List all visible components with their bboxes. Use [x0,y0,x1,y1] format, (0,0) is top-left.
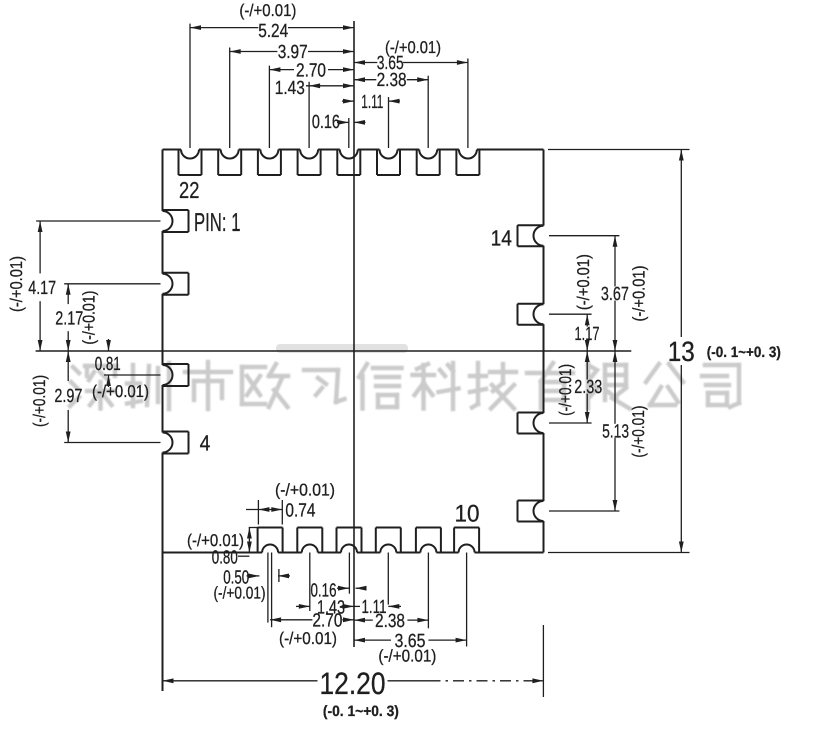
svg-text:2.97: 2.97 [54,386,82,407]
dimension 2.70 bottom (-/+0.01) [270,611,354,649]
top pad 4 (castellated) [298,150,321,176]
0.50 right tick [278,569,280,582]
svg-text:1.43: 1.43 [275,78,305,99]
svg-text:(-0. 1~+0. 3): (-0. 1~+0. 3) [707,344,781,361]
bottom pad5 extension [427,553,429,629]
left pad 1 (castellated) [163,210,189,232]
svg-text:(-/+0.01): (-/+0.01) [279,629,337,648]
dimension 2.97 (-/+0.01) [30,351,82,443]
bottom pad 3 (castellated) [337,528,362,553]
dimension 3.65 (-/+0.01) [354,38,468,74]
svg-text:2.33: 2.33 [574,377,602,398]
svg-text:(-/+0.01): (-/+0.01) [80,291,99,345]
dimension 3.97 [230,42,354,63]
top pad extension line x=467.9 [467,59,469,149]
13-dim bottom extension [548,552,690,554]
dimension 4.17 (-/+0.01) [7,221,56,351]
top pad extension line x=348.8 [348,118,350,148]
svg-text:(-/+0.01): (-/+0.01) [629,406,648,458]
dimension 0.80 (-/+0.01) [187,528,258,569]
top pad 1 (castellated) [179,150,202,176]
dimension 0.74 (-/+0.01) [246,480,335,521]
dimension 2.33 (-/+0.01) [556,351,602,423]
svg-text:(-/+0.01): (-/+0.01) [378,647,436,666]
bottom pad2 extension [309,553,311,612]
module body left edge (extends down as 12.20 extension) [162,150,164,692]
horizontal centerline [36,350,632,352]
0.74 right extension [281,500,283,525]
label PIN: 1 [194,207,241,237]
svg-text:0.74: 0.74 [285,500,315,521]
top pad extension line x=229.7 [229,48,231,149]
bottom pad4 extension [387,553,389,605]
0.74 left extension [257,500,259,525]
dimension 1.11 bottom [362,597,402,618]
svg-text:3.65: 3.65 [377,53,404,74]
right pad13 extension [549,313,592,315]
left pad2 extension [64,283,160,285]
top pad 6 (castellated) [377,150,400,176]
bottom pad1 slot lines [268,553,272,628]
module body bottom edge [163,552,544,554]
svg-text:1.11: 1.11 [361,92,383,113]
dimension 2.17 (-/+0.01) [55,284,98,351]
top pad 3 (castellated) [258,150,281,176]
dimension 3.65 bottom (-/+0.01) [354,631,467,666]
dimension 12.20 overall width (-0.1~+0.3) [163,666,544,720]
vertical centerline [353,21,355,647]
bottom pad 2 (castellated) [297,528,322,553]
left pad 4 (castellated) [163,432,189,454]
faint smudge artifact [276,344,408,353]
top pad extension line x=388.5 [388,97,390,148]
svg-text:5.13: 5.13 [602,421,629,442]
top pad extension line x=309.1 [308,82,310,148]
svg-text:22: 22 [179,177,199,203]
dimension 1.17 [575,314,600,351]
top pad extension line x=428.2 [427,76,429,148]
dimension 1.43 [275,78,354,99]
dimension 5.24 (-/+0.01) [190,1,354,42]
right pad 1 (castellated) [518,225,544,246]
top pad 7 (castellated) [417,150,440,176]
svg-text:(-/+0.01): (-/+0.01) [239,1,296,20]
dimension 0.16 [312,112,366,133]
svg-text:13: 13 [668,336,695,367]
svg-text:(-/+0.01): (-/+0.01) [630,266,649,322]
svg-text:(-/+0.01): (-/+0.01) [275,480,335,499]
dimension 2.38 [354,70,428,91]
svg-text:2.38: 2.38 [375,611,405,632]
svg-text:3.67: 3.67 [601,284,629,305]
dimension 3.67 (-/+0.01) [574,236,648,351]
left pad4 extension [64,442,160,444]
module body right edge [543,150,545,553]
svg-text:(-/+0.01): (-/+0.01) [574,254,593,310]
dimension 13 overall height (-0.1~+0.3) [668,150,781,553]
module body top edge [163,149,544,151]
right pad11 extension [549,510,619,512]
svg-text:10: 10 [455,501,480,528]
left pad1 extension [36,220,160,222]
top pad extension line x=190.0 [189,24,191,148]
svg-text:4: 4 [200,431,211,456]
label 4 (pin number) [200,431,211,456]
label 10 (pin number) [455,501,480,528]
13-dim top extension [548,149,690,151]
right pad12 extension [549,422,592,424]
label 22 (pin number) [179,177,199,203]
svg-text:0.81: 0.81 [95,354,121,375]
bottom pad6 extension [466,553,468,647]
svg-text:0.80: 0.80 [212,548,238,569]
svg-text:(-/+0.01): (-/+0.01) [214,584,266,603]
svg-text:12.20: 12.20 [320,666,386,701]
bottom pad3 extension [348,553,350,594]
top pad 8 (castellated) [456,150,479,176]
left pad 3 (castellated) [163,364,189,386]
bottom pad 5 (castellated) [416,528,441,553]
right pad 2 (castellated) [518,304,544,325]
dimension 2.70 [269,61,354,82]
dimension 1.11 [342,92,400,113]
dimension 0.81 (-/+0.01) [92,339,149,401]
left pad3 extension [104,374,161,376]
svg-text:(-0. 1~+0. 3): (-0. 1~+0. 3) [323,703,399,720]
svg-text:(-/+0.01): (-/+0.01) [556,364,575,416]
bottom pad 4 (castellated) [376,528,401,553]
bottom pad 1 (castellated) [258,528,283,553]
top pad extension line x=269.4 [268,66,270,148]
svg-text:5.24: 5.24 [258,21,288,42]
label 14 (pin number) [491,226,512,251]
left pad 2 (castellated) [163,273,189,295]
dimension 2.38 bottom [354,611,428,632]
12.20 right extension [542,625,544,697]
svg-text:(-/+0.01): (-/+0.01) [7,256,26,312]
right pad14 extension [549,235,619,237]
svg-text:(-/+0.01): (-/+0.01) [92,382,149,401]
svg-text:(-/+0.01): (-/+0.01) [30,375,49,427]
svg-text:4.17: 4.17 [28,278,56,299]
dimension 5.13 (-/+0.01) [602,351,648,511]
svg-text:PIN: 1: PIN: 1 [194,207,241,237]
top pad 5 (castellated) [337,150,360,176]
right pad 3 (castellated) [518,413,544,434]
bottom pad 6 (castellated) [454,528,479,553]
svg-text:14: 14 [491,226,512,251]
svg-text:0.16: 0.16 [312,112,340,133]
dimension 0.50 (-/+0.01) [214,568,291,603]
svg-text:1.17: 1.17 [575,324,600,345]
dimension 1.43 bottom [296,598,360,619]
right pad 4 (castellated) [518,501,544,522]
top pad 2 (castellated) [218,150,241,176]
dimension 0.16 bottom [311,580,367,601]
